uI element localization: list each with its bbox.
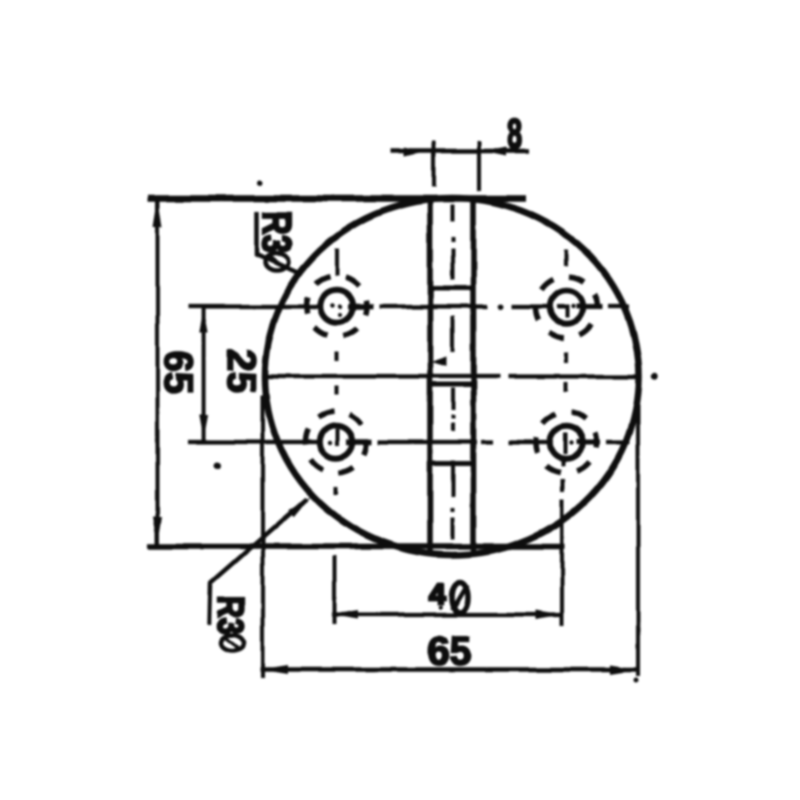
- svg-text:65: 65: [156, 350, 200, 395]
- svg-text:25: 25: [219, 349, 263, 394]
- svg-text:65: 65: [427, 630, 472, 674]
- svg-text:R3: R3: [254, 211, 299, 253]
- svg-text:8: 8: [507, 110, 522, 157]
- svg-text:R3: R3: [210, 596, 250, 634]
- svg-text:4: 4: [430, 579, 446, 611]
